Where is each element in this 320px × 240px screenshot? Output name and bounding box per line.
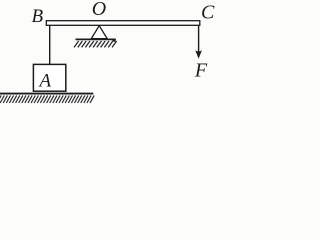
fulcrum base line bbox=[76, 38, 116, 40]
fulcrum base line end tick bbox=[113, 39, 116, 42]
svg-text:C: C bbox=[201, 2, 215, 24]
string from B to block A bbox=[49, 25, 51, 64]
fulcrum base hatching bbox=[74, 41, 117, 47]
svg-text:A: A bbox=[38, 70, 52, 91]
force arrowhead bbox=[195, 50, 202, 58]
svg-text:B: B bbox=[32, 6, 44, 27]
ground line bbox=[0, 93, 93, 95]
svg-text:O: O bbox=[92, 0, 106, 20]
ground hatching bbox=[0, 95, 94, 103]
fulcrum triangle O bbox=[91, 26, 107, 39]
force arrow line at C bbox=[198, 25, 200, 54]
beam BC (lever) bbox=[46, 21, 200, 26]
block A bbox=[33, 64, 65, 91]
svg-text:F: F bbox=[194, 59, 208, 81]
